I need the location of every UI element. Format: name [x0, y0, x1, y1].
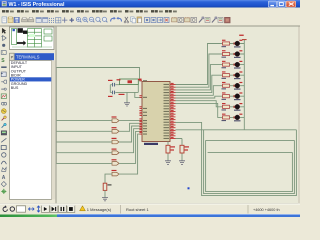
- svg-text:BUS: BUS: [11, 86, 19, 90]
- svg-text:1 Message(s): 1 Message(s): [87, 207, 112, 212]
- svg-text:W1 - ISIS Professional: W1 - ISIS Professional: [9, 2, 65, 8]
- svg-text:TERMINALS: TERMINALS: [16, 55, 40, 60]
- svg-text:Root sheet 1: Root sheet 1: [126, 207, 149, 212]
- svg-text:P: P: [11, 55, 14, 60]
- svg-text:+4600 +4600 th: +4600 +4600 th: [253, 208, 280, 212]
- svg-text:L: L: [2, 51, 4, 55]
- svg-text:A: A: [2, 175, 6, 181]
